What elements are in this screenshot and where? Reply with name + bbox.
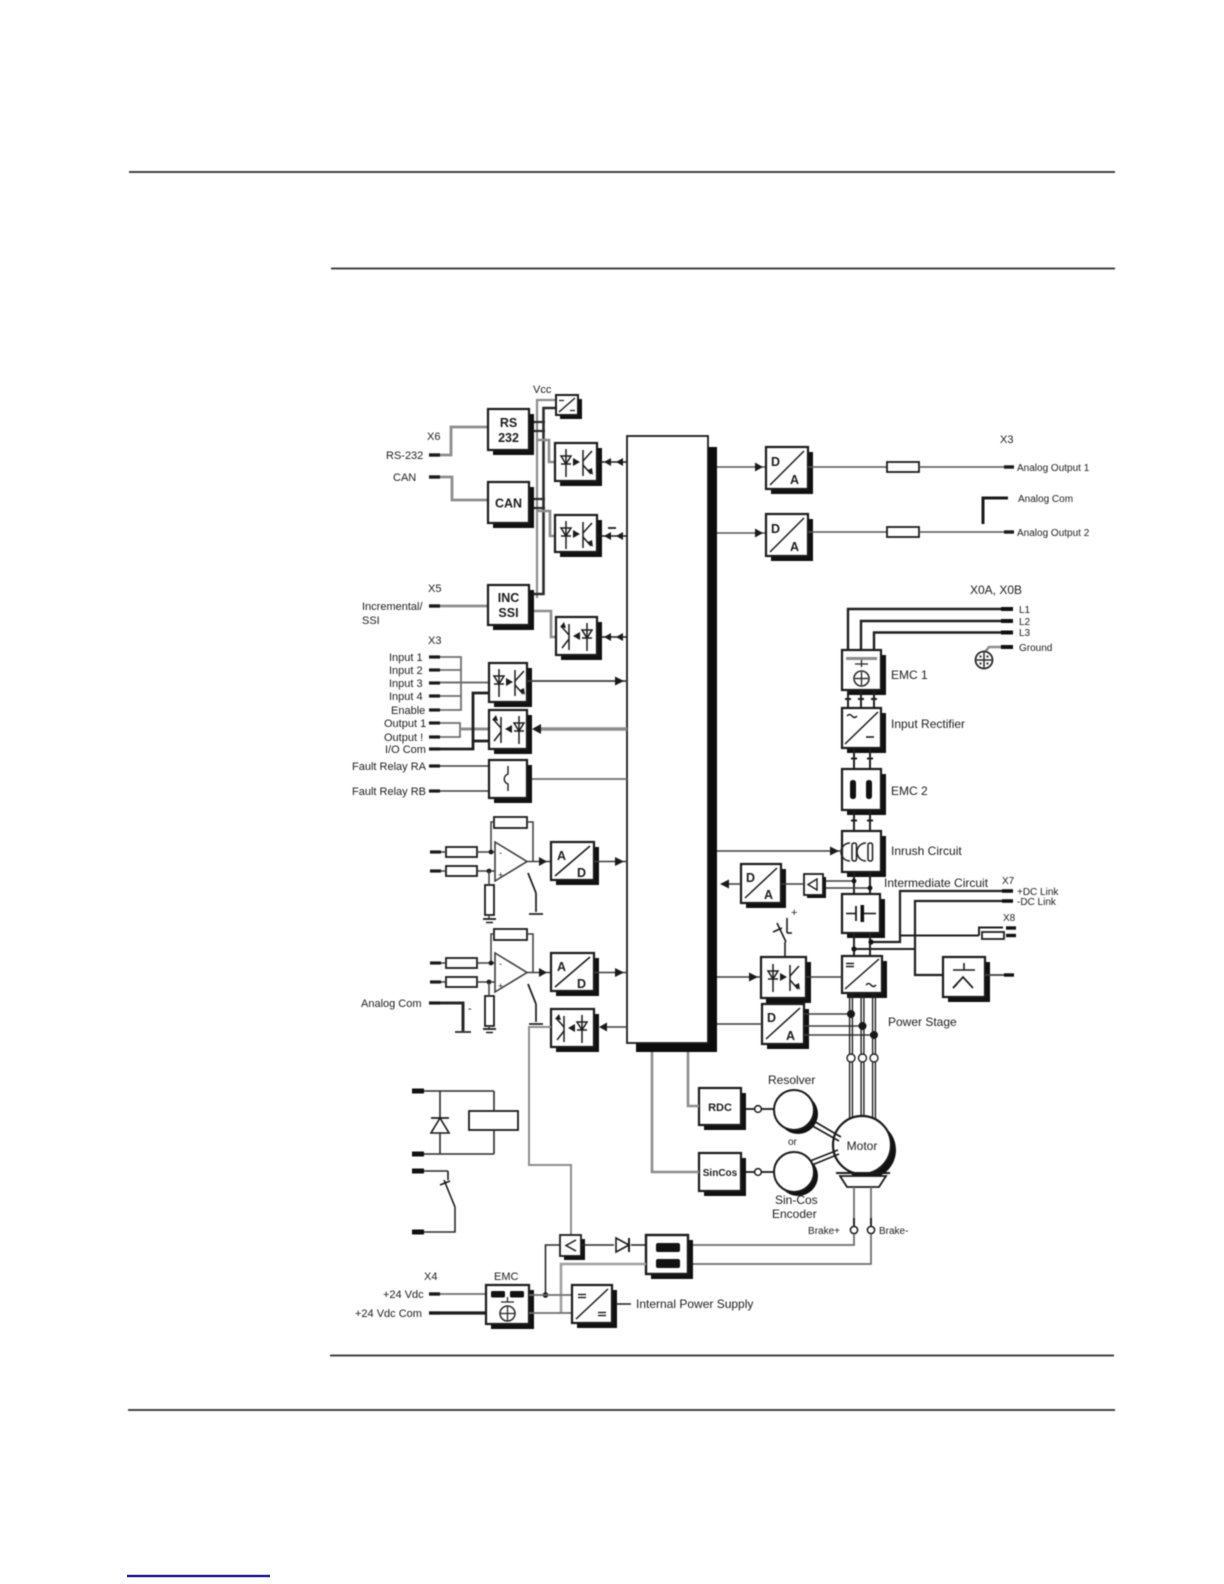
terminal dash +24 Vdc [429, 1292, 440, 1295]
analog com bracket [983, 498, 1008, 524]
wire input 1 [440, 657, 461, 682]
interface box RS 232 [488, 409, 534, 455]
svg-text:RS: RS [500, 416, 517, 430]
svg-text:Enable: Enable [391, 705, 425, 717]
wire ground lead [985, 647, 1002, 652]
wire fault relay RA [440, 765, 508, 767]
wires intermediate to power stage ladder [854, 933, 915, 956]
flyback diode vertical branch [439, 1091, 441, 1154]
optocoupler U2 (CAN) [555, 515, 602, 557]
wire Incremental to INC SSI box [440, 605, 488, 608]
motor circle [838, 1121, 896, 1179]
terminal dash Input 4 [429, 694, 440, 697]
svg-text:Resolver: Resolver [768, 1073, 815, 1087]
wire -DC Link [915, 901, 1004, 975]
junction A1 minus [489, 850, 494, 855]
svg-text:Vcc: Vcc [533, 384, 552, 396]
svg-text:Sin-Cos: Sin-Cos [775, 1193, 818, 1207]
svg-text:D: D [771, 522, 780, 536]
wire analog com elbow [440, 1003, 463, 1031]
svg-text:A: A [790, 540, 799, 554]
svg-text:SinCos: SinCos [703, 1168, 738, 1179]
terminal dash op-amp A1 input 1 [430, 850, 441, 853]
svg-text:SSI: SSI [498, 606, 518, 620]
terminal dash Input 1 [429, 655, 440, 658]
top rule 2 [331, 268, 1115, 270]
interface box INC SSI [488, 585, 534, 630]
svg-text:Input 2: Input 2 [389, 665, 423, 677]
converter D/A mid (bus voltage) [741, 864, 786, 908]
wire I/O Com [440, 693, 489, 749]
gate driver box [560, 1235, 585, 1260]
wire processor to D/A2 [717, 532, 766, 534]
wire input 3 into optocoupler U4 [440, 682, 489, 684]
rectifier box [842, 708, 886, 753]
svg-text:Input Rectifier: Input Rectifier [891, 717, 965, 731]
svg-text:Analog Com: Analog Com [361, 998, 422, 1010]
svg-text:A: A [786, 1029, 795, 1043]
wire brake- to battery [688, 1234, 871, 1264]
svg-text:Intermediate Circuit: Intermediate Circuit [884, 876, 989, 890]
svg-text:-DC Link: -DC Link [1017, 897, 1057, 908]
terminal dash analog output 2 [1004, 530, 1014, 533]
brake terminal plus [853, 1218, 855, 1226]
svg-text:X5: X5 [428, 583, 441, 595]
svg-text:+: + [498, 870, 503, 880]
wire D/A mid to comparator [781, 883, 804, 885]
converter A/D 1 [551, 842, 599, 885]
brake supply box [646, 1235, 693, 1279]
svg-text:L1: L1 [1019, 605, 1031, 616]
svg-text:Brake+: Brake+ [808, 1226, 840, 1237]
svg-text:L3: L3 [1019, 628, 1031, 639]
terminal dash L3 [1001, 631, 1013, 635]
svg-text:X7: X7 [1002, 876, 1015, 887]
junction A2 minus [489, 961, 494, 966]
svg-text:Motor: Motor [847, 1139, 878, 1153]
svg-text:+24 Vdc: +24 Vdc [383, 1289, 424, 1301]
wire U6 to gate driver path [529, 1027, 571, 1235]
terminal dash op-amp A1 input 2 [430, 869, 441, 872]
power stage box [842, 956, 887, 998]
wire feedback right A1 [527, 822, 533, 861]
bottom rule 2 [128, 1409, 1115, 1411]
optocoupler U6 (reversed, analog section) [551, 1009, 599, 1052]
relay coil terminal top [412, 1089, 424, 1094]
svg-text:Input 3: Input 3 [389, 678, 423, 690]
wire D/A1 to output resistor [808, 466, 887, 468]
wire output 2 [440, 729, 460, 737]
svg-text:Internal Power Supply: Internal Power Supply [636, 1297, 753, 1311]
terminal dash L1 [1001, 607, 1013, 611]
junction dots phase sense [847, 1010, 855, 1018]
brake chopper box [943, 957, 990, 1002]
relay coil top wire [424, 1090, 494, 1092]
wires rectifier to EMC2 [851, 748, 873, 769]
terminal dash op-amp A2 input 1 [430, 961, 441, 964]
wire feedback right A2 [527, 934, 533, 972]
svg-text:Analog Output 2: Analog Output 2 [1017, 528, 1090, 539]
terminal dash Fault Relay RB [429, 789, 440, 792]
wire relay to processor [532, 778, 627, 780]
wire output 1 [440, 723, 460, 729]
terminal dash L2 [1001, 619, 1013, 623]
resolver circle [778, 1094, 818, 1134]
terminal dash Analog Com left [429, 1001, 440, 1004]
terminal dash CAN [429, 475, 440, 478]
svg-text:Analog Com: Analog Com [1018, 494, 1073, 505]
relay coil box [469, 1111, 518, 1130]
svg-text:X0A, X0B: X0A, X0B [970, 583, 1022, 597]
wire D/A2 to output resistor [808, 531, 887, 533]
intermediate circuit box (dc link capacitor) [842, 894, 885, 938]
shaft encoder to motor [810, 1150, 838, 1161]
wire processor to U5 [535, 727, 627, 730]
svg-text:A: A [557, 849, 566, 863]
svg-text:Input 1: Input 1 [389, 652, 423, 664]
svg-text:Fault Relay RB: Fault Relay RB [352, 786, 426, 798]
resistor A2 input 2 [446, 977, 477, 987]
op-amp A1 feedback resistor [494, 817, 527, 828]
converter SinCos box [699, 1153, 746, 1196]
sin-cos encoder circle [778, 1156, 818, 1196]
svg-text:Analog Output 1: Analog Output 1 [1017, 463, 1090, 474]
converter RDC box [699, 1088, 746, 1130]
wire U7 to power stage [806, 976, 842, 978]
earth terminal symbol [976, 652, 993, 669]
motor phase lines [850, 993, 876, 1119]
svg-text:X4: X4 [424, 1271, 437, 1283]
terminal dash analog output 1 [1004, 465, 1014, 468]
svg-text:X3: X3 [428, 635, 441, 647]
motor base [840, 1176, 886, 1187]
relay coil bottom wire [424, 1153, 494, 1155]
calibration switch A1 [528, 873, 536, 893]
wire Vcc rail dark [531, 408, 556, 594]
svg-text:I/O Com: I/O Com [385, 744, 426, 756]
svg-text:-: - [468, 1003, 472, 1015]
svg-text:Output 1: Output 1 [384, 718, 426, 730]
wire D/A mid to processor [722, 883, 741, 885]
wire CAN box to rail stubs [530, 498, 545, 500]
calibration switch A2 [528, 984, 536, 1004]
svg-text:+: + [498, 981, 503, 991]
wire U2 to processor with arrows [597, 535, 627, 537]
terminal dash Output 2 [429, 735, 440, 738]
terminal dash Enable [429, 708, 440, 711]
svg-text:EMC 1: EMC 1 [891, 668, 928, 682]
terminal dash Output 1 [429, 721, 440, 724]
wire enable with bus [440, 683, 461, 710]
wire processor to U7 [717, 976, 761, 978]
wire SinCos to encoder with connector [746, 1171, 754, 1173]
svg-text:-: - [499, 848, 502, 858]
blue footer line [127, 1575, 270, 1578]
svg-text:D: D [771, 455, 780, 469]
switch terminal bottom [412, 1230, 424, 1235]
dc-dc converter Vcc [556, 395, 582, 419]
wire brake chopper output [985, 974, 1006, 976]
wire outputs bus to optocoupler U5 [460, 728, 489, 731]
wire input 4 [440, 695, 461, 697]
svg-text:X6: X6 [427, 431, 440, 443]
optocoupler U4 (inputs) [489, 663, 532, 707]
svg-text:A: A [557, 960, 566, 974]
wire gate driver to supply junction [546, 1245, 561, 1295]
wires inrush to intermediate [854, 872, 870, 894]
ground op-amp A1 [483, 918, 496, 920]
wire feedback left A1 [491, 822, 494, 852]
wire resistor to analog output 1 terminal [919, 466, 1004, 468]
wire RS232 to optocoupler U1 [537, 440, 556, 462]
converter D/A power (current) [762, 1004, 809, 1049]
svg-text:Fault Relay RA: Fault Relay RA [352, 761, 427, 773]
terminal dash ground [1001, 645, 1013, 649]
svg-text:CAN: CAN [393, 472, 416, 484]
wire U4 to processor [527, 680, 627, 682]
wire CAN to CAN box [440, 477, 488, 500]
comparator buffer box [804, 874, 826, 898]
svg-text:EMC 2: EMC 2 [891, 784, 928, 798]
terminal dash Input 3 [429, 681, 440, 684]
inrush circuit box [841, 831, 886, 877]
svg-text:D: D [577, 977, 586, 991]
svg-text:X3: X3 [1000, 434, 1013, 446]
terminal dash I/O Com [429, 747, 440, 750]
wire A1 in1 [441, 851, 446, 853]
ground op-amp A2 [483, 1028, 496, 1030]
resistor A1 input 1 [446, 847, 477, 857]
svg-text:Encoder: Encoder [772, 1207, 817, 1221]
flyback diode [431, 1118, 449, 1133]
wire fault relay RB [440, 790, 508, 792]
wire op-amp A2 to A/D2 [527, 972, 551, 974]
shaft resolver to motor [809, 1124, 839, 1141]
svg-text:A: A [790, 473, 799, 487]
brake terminal minus [870, 1218, 872, 1226]
svg-text:CAN: CAN [495, 497, 522, 511]
wire L2 [861, 621, 1003, 650]
wire processor to U6 [606, 1026, 627, 1028]
wire RS-232 to RS232 box [440, 427, 488, 455]
wire diode to brake battery box [631, 1244, 646, 1246]
wire A2 in1 [441, 962, 446, 964]
wire +24 Vdc [440, 1293, 486, 1295]
wire U3 to processor with double arrowheads [597, 636, 627, 638]
wire EMC to IPS upper [529, 1294, 572, 1296]
converter D/A 1 [766, 447, 813, 494]
svg-text:+: + [791, 907, 797, 919]
switch top wire [424, 1170, 448, 1172]
switch terminal top [412, 1169, 424, 1174]
resistor A1 ground leg [485, 885, 494, 915]
junction dots dc rails [868, 939, 873, 944]
optocoupler U7 (gate drive) [761, 957, 811, 1003]
svg-text:232: 232 [498, 431, 519, 445]
wire A/D2 to processor [594, 972, 627, 974]
optocoupler U5 (outputs, reversed) [489, 710, 532, 754]
top rule 1 [129, 171, 1115, 173]
wire U1 to processor with double arrowheads [597, 461, 627, 463]
interface box CAN [488, 482, 534, 528]
relay coil right branch [493, 1091, 495, 1111]
wire EMC to IPS lower [529, 1312, 572, 1314]
optocoupler U3 (INC/SSI, reversed) [556, 617, 602, 660]
switch blade [444, 1180, 455, 1207]
optocoupler U1 (RS232) [555, 443, 602, 486]
wire processor to SinCos [652, 1052, 699, 1172]
phase connector circles [847, 1054, 855, 1062]
resistor A2 ground leg [485, 996, 494, 1026]
terminal dash RS-232 [429, 453, 440, 456]
converter D/A 2 [766, 514, 813, 561]
wire processor to RDC [688, 1052, 699, 1106]
svg-text:Incremental/: Incremental/ [362, 601, 423, 613]
terminal dash op-amp A2 input 2 [430, 980, 441, 983]
svg-text:RDC: RDC [708, 1102, 732, 1114]
resistor analog output 2 [887, 527, 919, 537]
svg-text:A: A [764, 888, 773, 902]
wire RS-232 box to rail stubs [530, 421, 545, 423]
svg-text:Brake-: Brake- [879, 1226, 908, 1237]
terminal dash Incremental [429, 604, 440, 607]
wire gate driver to diode [581, 1244, 614, 1246]
filter box EMC 1 [842, 650, 886, 695]
wire RDC to resolver with connector [746, 1108, 754, 1110]
svg-text:INC: INC [498, 591, 520, 605]
wire battery lower to supply rail [561, 1264, 646, 1313]
junction A2 plus [487, 980, 492, 985]
wire A/D1 to processor [594, 861, 627, 863]
wires D/A power to phase lines [804, 1013, 851, 1015]
svg-text:Power Stage: Power Stage [888, 1015, 957, 1029]
svg-text:Ground: Ground [1019, 643, 1052, 654]
wire processor to D/A1 [717, 466, 766, 468]
svg-text:+24 Vdc Com: +24 Vdc Com [355, 1308, 422, 1320]
wire op-amp A1 to A/D1 [527, 861, 551, 863]
resistor A1 input 2 [446, 866, 477, 876]
wire A2 in2 [441, 981, 446, 983]
relay coil terminal bottom [412, 1152, 424, 1157]
terminal dash Input 2 [429, 668, 440, 671]
wire brake+ to battery [688, 1234, 854, 1245]
svg-text:D: D [577, 866, 586, 880]
op-amp A2 feedback resistor [494, 929, 527, 940]
svg-text:D: D [746, 871, 755, 885]
processor main block [627, 436, 717, 1052]
filter box EMC X4 [486, 1285, 534, 1329]
wire CAN to optocoupler U2 [537, 511, 556, 536]
svg-text:RS-232: RS-232 [386, 450, 423, 462]
wire L3 [874, 633, 1003, 651]
wire processor to D/A power [717, 1023, 762, 1025]
op-amp A1 [495, 842, 527, 881]
filter box EMC 2 [842, 769, 886, 815]
svg-text:SSI: SSI [362, 615, 380, 627]
wire +24 Vdc Com thick [440, 1311, 486, 1314]
internal power supply box [572, 1285, 617, 1328]
op-amp A2 [495, 953, 527, 992]
wire resistor to analog output 2 terminal [919, 531, 1004, 533]
wire input 2 [440, 669, 461, 671]
converter A/D 2 [551, 953, 599, 996]
junction A1 plus [487, 869, 492, 874]
terminal dash Fault Relay RA [429, 764, 440, 767]
svg-text:X8: X8 [1003, 913, 1016, 924]
svg-text:Output !: Output ! [384, 732, 423, 744]
resistor A2 input 1 [446, 958, 477, 968]
terminal dash -DC Link [1002, 899, 1013, 903]
svg-text:-: - [499, 959, 502, 969]
svg-text:L2: L2 [1019, 617, 1031, 628]
wire INC/SSI to optocoupler U3 [531, 611, 557, 637]
bottom rule 1 [330, 1355, 1114, 1357]
svg-text:Input 4: Input 4 [389, 691, 423, 703]
svg-text:D: D [767, 1011, 776, 1025]
wires EMC1 to rectifier [845, 690, 877, 708]
terminal dash +24 Vdc Com [429, 1311, 440, 1314]
wire A1 in2 [441, 870, 446, 872]
resistor analog output 1 [887, 462, 919, 472]
X8 connector plug [900, 928, 1004, 940]
svg-text:EMC: EMC [494, 1271, 519, 1283]
brake wires from motor [853, 1187, 855, 1224]
relay K1 box [489, 760, 532, 803]
svg-text:or: or [788, 1137, 798, 1148]
wire L1 [848, 609, 1003, 650]
switch bottom wire [424, 1207, 455, 1232]
wire processor to inrush [717, 850, 842, 852]
svg-text:Inrush Circuit: Inrush Circuit [891, 844, 962, 858]
wire feedback left A2 [491, 934, 494, 963]
diode D1 [616, 1238, 629, 1252]
wire IPS label lead [616, 1303, 631, 1305]
terminal dash +DC Link [1002, 889, 1013, 893]
wires comparator to dc rails [826, 880, 854, 882]
wire +DC Link [871, 891, 1004, 942]
wire Vcc rail gray [537, 400, 555, 598]
wires EMC2 to inrush [851, 810, 873, 831]
